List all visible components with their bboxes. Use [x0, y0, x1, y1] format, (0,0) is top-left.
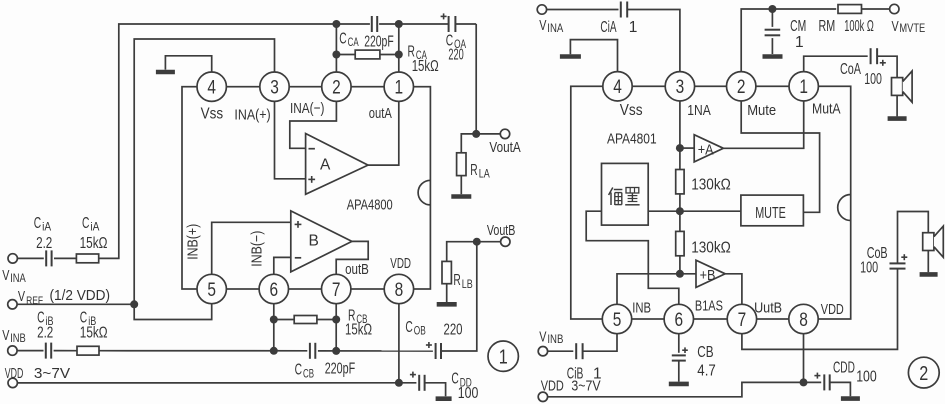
capacitor CiA 2.2 (input cap A)	[8, 215, 76, 267]
svg-text:V: V	[2, 267, 9, 284]
wire pin7 down to feedback node	[335, 303, 337, 351]
ground (pin4 stub right)	[560, 40, 618, 73]
capacitor COA 220 (output cap A)	[441, 13, 477, 63]
svg-text:OB: OB	[414, 323, 426, 337]
svg-text:VoutB: VoutB	[487, 223, 516, 239]
svg-text:Mute: Mute	[747, 102, 776, 119]
junction RCB right	[332, 316, 340, 324]
capacitor CDD 100 (supply decoupling, left)	[410, 371, 479, 403]
svg-text:15kΩ: 15kΩ	[80, 235, 108, 252]
amp +B	[680, 260, 725, 287]
svg-text:INB: INB	[632, 300, 651, 317]
svg-text:1NA: 1NA	[687, 102, 711, 119]
svg-text:B1AS: B1AS	[695, 298, 723, 315]
wire pin6 down to feedback node	[273, 303, 275, 351]
wire bias block to pin6 (B1AS)	[586, 211, 679, 305]
ground (RLB)	[437, 302, 457, 307]
wire pin1 drop from top rail	[398, 24, 400, 73]
svg-text:A: A	[320, 157, 331, 174]
pin 6	[259, 274, 288, 303]
svg-text:LB: LB	[462, 277, 473, 291]
junction VoutB node	[473, 238, 481, 246]
svg-text:V: V	[2, 327, 9, 344]
svg-text:CA: CA	[348, 35, 359, 49]
figure label 1	[488, 341, 518, 371]
svg-text:INA: INA	[547, 23, 563, 35]
svg-text:100: 100	[860, 260, 878, 277]
svg-text:B: B	[309, 233, 319, 250]
capacitor CoA 100 (output cap A right)	[840, 48, 886, 88]
label INB(-) rotated	[249, 231, 265, 267]
svg-text:220: 220	[444, 322, 463, 339]
junction RCB left	[270, 316, 278, 324]
resistor 130k (upper)	[676, 170, 731, 194]
pin 3 name 1NA	[687, 102, 711, 119]
svg-text:CM: CM	[790, 18, 806, 35]
svg-text:R: R	[470, 162, 477, 179]
pin 8 name VDD (U2)	[821, 301, 844, 318]
pin 2 (U2)	[727, 72, 756, 101]
svg-text:2: 2	[919, 363, 928, 385]
wire pin2 to MUTE block	[741, 100, 819, 212]
junction +A input	[676, 144, 684, 152]
resistor RLA (load A)	[457, 134, 490, 194]
svg-text:1: 1	[499, 346, 508, 368]
capacitor CiA 1 (right input cap A)	[600, 2, 637, 37]
wire CiB to pin5	[583, 333, 617, 352]
junction bias node	[676, 207, 684, 215]
junction rail/pin7	[332, 347, 340, 355]
svg-text:1: 1	[799, 77, 808, 98]
resistor RCA 15k (feedback A)	[336, 44, 438, 75]
wire top feedback rail from input resistor to pin2 node	[99, 24, 337, 258]
junction top rail / pin1	[395, 20, 403, 28]
svg-text:220: 220	[448, 46, 464, 63]
svg-text:VDD: VDD	[5, 366, 24, 382]
svg-text:INB(+): INB(+)	[186, 224, 202, 260]
wire INB(-) pin6 to op-amp B inverting input	[274, 257, 291, 275]
pin 3 name INA(+)	[234, 107, 270, 124]
svg-text:V: V	[539, 17, 546, 34]
pin 1	[384, 72, 413, 101]
svg-text:1: 1	[395, 78, 404, 99]
wire pin8 to VDD rail	[398, 303, 400, 383]
svg-text:INA(−): INA(−)	[290, 100, 324, 117]
label INB(+) rotated	[186, 224, 202, 260]
svg-text:R: R	[453, 272, 460, 289]
terminal VREF	[8, 288, 135, 309]
figure label 2	[908, 357, 939, 388]
pin 6 (U2)	[664, 304, 693, 333]
pin 8 name VDD	[390, 255, 411, 272]
block MUTE	[741, 195, 804, 226]
svg-text:2: 2	[332, 78, 341, 99]
wire CoB to speaker B	[898, 212, 929, 264]
svg-text:5: 5	[613, 310, 622, 331]
svg-text:130kΩ: 130kΩ	[691, 176, 731, 193]
pin 7 (U2)	[727, 304, 756, 333]
junction RCA right	[395, 51, 403, 59]
terminal VMVTE	[890, 4, 926, 35]
svg-text:Vss: Vss	[620, 102, 643, 119]
svg-text:1: 1	[629, 19, 638, 36]
wire VREF to pin5 (INB+)	[134, 303, 212, 320]
capacitor CoB 100 (output cap B)	[860, 245, 907, 277]
svg-text:100: 100	[458, 385, 479, 402]
resistor RLB (load B)	[442, 242, 477, 302]
svg-text:3~7V: 3~7V	[571, 379, 600, 395]
ground (speaker A)	[888, 116, 907, 121]
junction +B input	[676, 270, 684, 278]
capacitor CCB 220pF	[295, 343, 356, 381]
ground (speaker B)	[920, 272, 938, 277]
svg-text:+B: +B	[700, 268, 716, 284]
wire CCB to COB	[318, 350, 433, 352]
terminal VoutB	[477, 223, 516, 246]
pin 6 name B1AS	[695, 298, 723, 315]
svg-text:7: 7	[738, 310, 747, 331]
svg-text:APA4800: APA4800	[347, 197, 393, 214]
ground (RLA)	[451, 194, 471, 199]
pin 3 (U2)	[665, 72, 694, 101]
pin 8	[384, 274, 413, 303]
label APA4801	[607, 131, 657, 148]
svg-text:C: C	[405, 319, 412, 336]
wire pin5 to +B input	[617, 274, 680, 306]
ground (CDD right)	[841, 396, 860, 401]
svg-text:3: 3	[270, 78, 279, 99]
svg-text:V: V	[18, 288, 25, 305]
terminal VINB (right)	[538, 329, 573, 356]
svg-text:Vss: Vss	[201, 106, 224, 123]
svg-text:3: 3	[676, 77, 685, 98]
svg-text:V: V	[892, 18, 899, 35]
wire INA(+) pin3 to op-amp A non-inverting input	[275, 100, 306, 178]
resistor CiA 15k (input R, channel A)	[76, 215, 107, 263]
svg-text:2.2: 2.2	[37, 325, 53, 342]
svg-text:4.7: 4.7	[697, 362, 716, 379]
pin 5 name INB	[632, 300, 651, 317]
svg-text:220pF: 220pF	[325, 361, 356, 378]
label bias 偏置	[609, 188, 640, 206]
pin 2	[322, 72, 351, 101]
svg-text:iA: iA	[90, 219, 99, 233]
svg-text:REF: REF	[26, 295, 43, 307]
pin 2 name Mute	[747, 102, 776, 119]
wire VREF to pin3 (INA+)	[134, 39, 274, 304]
terminal VoutA	[476, 129, 521, 156]
wire pin1 to CoA	[804, 56, 868, 72]
wire speaker A to ground	[896, 95, 898, 116]
svg-text:8: 8	[799, 310, 808, 331]
svg-text:(1/2 VDD): (1/2 VDD)	[50, 288, 111, 304]
ground (pin4 stub)	[156, 56, 212, 73]
svg-text:C: C	[34, 215, 41, 232]
svg-text:100k Ω: 100k Ω	[844, 18, 874, 35]
svg-text:C: C	[339, 30, 346, 47]
junction RCA left	[332, 51, 340, 59]
terminal VINA (right)	[537, 5, 618, 35]
svg-text:outA: outA	[369, 105, 392, 122]
pin 1 (U2)	[789, 72, 818, 101]
wire op-amp B output to pin7	[336, 241, 368, 275]
svg-text:INB: INB	[547, 334, 563, 346]
svg-text:APA4801: APA4801	[607, 131, 657, 148]
svg-text:INA: INA	[10, 273, 26, 285]
svg-text:MutA: MutA	[812, 101, 841, 118]
svg-text:15kΩ: 15kΩ	[80, 325, 108, 342]
svg-text:5: 5	[207, 280, 216, 301]
amp +A	[680, 135, 724, 162]
wire INB(+) pin5 to op-amp B non-inverting input	[212, 222, 291, 275]
junction VDD/pin8 (right)	[800, 378, 808, 386]
junction rail/pin6	[270, 347, 278, 355]
resistor RCB 15k (feedback B)	[274, 308, 372, 339]
capacitor COB 220 (output cap B)	[405, 319, 462, 359]
pin 5	[197, 274, 226, 303]
junction VoutA node	[472, 130, 480, 138]
svg-text:CB: CB	[697, 344, 713, 361]
svg-text:6: 6	[270, 280, 279, 301]
IC U2 APA4801 package outline	[571, 86, 851, 319]
svg-text:MUTE: MUTE	[755, 205, 786, 222]
svg-text:VDD: VDD	[821, 301, 844, 318]
svg-text:VoutA: VoutA	[489, 140, 521, 156]
svg-text:15kΩ: 15kΩ	[412, 58, 439, 75]
pin 5 (U2)	[602, 304, 631, 333]
pin 4 name Vss	[201, 106, 224, 123]
svg-text:C: C	[295, 362, 302, 379]
junction VDD/pin8	[395, 379, 403, 387]
pin 2 name INA(-)	[290, 100, 324, 117]
svg-text:VDD: VDD	[541, 379, 564, 395]
svg-text:100: 100	[856, 368, 877, 385]
wire VDD rail (right)	[538, 379, 821, 402]
wire bias node to MUTE block	[648, 210, 741, 212]
wire +A output to pin1	[723, 100, 803, 148]
op-amp A	[306, 134, 368, 195]
svg-text:MVTE: MVTE	[899, 23, 925, 35]
wire INA(-) pin2 to op-amp A inverting input	[290, 100, 337, 148]
wire pin3 internal chain	[679, 100, 681, 170]
svg-text:C: C	[82, 215, 89, 232]
svg-text:100: 100	[864, 71, 882, 88]
svg-text:8: 8	[395, 280, 404, 301]
junction VREF node	[130, 300, 138, 308]
capacitor CiB 2.2 (input cap B)	[8, 309, 77, 358]
terminal VINA label	[2, 267, 26, 285]
svg-text:iA: iA	[42, 219, 51, 233]
pin 1 name MutA	[812, 101, 841, 118]
svg-text:4: 4	[207, 78, 216, 99]
svg-text:RM: RM	[819, 18, 836, 35]
svg-text:LA: LA	[479, 167, 490, 181]
svg-text:130kΩ: 130kΩ	[691, 240, 731, 257]
speaker B	[923, 226, 944, 257]
wire VoutA branch	[475, 24, 477, 134]
capacitor CiB 1 (right input cap B)	[567, 343, 602, 382]
svg-text:2: 2	[737, 77, 746, 98]
pin 7 name UutB	[754, 300, 782, 317]
pin 4 name Vss (U2)	[620, 102, 643, 119]
svg-text:2.2: 2.2	[36, 235, 52, 252]
terminal VINB label	[2, 327, 26, 345]
pin 7 name outB	[345, 261, 369, 278]
svg-text:7: 7	[332, 280, 341, 301]
pin 4 (U2)	[603, 72, 632, 101]
wire pin2 drop from top rail	[335, 24, 337, 73]
svg-text:+A: +A	[698, 142, 714, 158]
pin 4	[197, 72, 226, 101]
speaker A	[892, 71, 913, 102]
resistor RM 100k (mute R)	[819, 5, 890, 35]
op-amp B	[291, 211, 352, 272]
svg-text:VDD: VDD	[390, 255, 411, 272]
wire outA rail to COA	[399, 23, 448, 25]
wire COB to VoutB	[441, 242, 477, 351]
capacitor CDD 100 (supply decoupling, right)	[814, 359, 877, 396]
svg-text:UutB: UutB	[754, 300, 782, 317]
wire VDD rail	[5, 366, 417, 388]
ground (CB)	[669, 382, 689, 387]
wire CoA to speaker A	[877, 56, 897, 77]
junction CM node	[768, 5, 776, 13]
pin 1 name outA	[369, 105, 392, 122]
wire op-amp A output to pin1	[368, 100, 399, 165]
svg-text:CiA: CiA	[600, 19, 617, 36]
block bias (offset) box	[602, 163, 649, 225]
svg-text:15kΩ: 15kΩ	[345, 321, 372, 338]
wire VINB rail to CCB	[99, 350, 307, 352]
wire +B output to pin7	[725, 274, 742, 306]
wire pin8 to VDD rail (right)	[803, 333, 805, 383]
ground (CDD left)	[436, 396, 452, 401]
svg-text:220pF: 220pF	[364, 33, 394, 50]
IC U1 APA4800 package outline	[182, 87, 430, 289]
ground (CM)	[763, 54, 783, 59]
capacitor CB 4.7 (bias cap)	[672, 333, 716, 382]
svg-text:outB: outB	[345, 261, 369, 278]
resistor 130k (lower)	[676, 231, 731, 256]
pin 7	[322, 274, 351, 303]
pin 8 (U2)	[789, 304, 818, 333]
svg-text:CDD: CDD	[833, 359, 855, 376]
wire pin2 to mute rail	[741, 9, 836, 73]
svg-text:CB: CB	[303, 366, 314, 380]
label APA4800	[347, 197, 393, 214]
junction top rail / pin2	[332, 20, 340, 28]
capacitor CM 1 (mute cap)	[765, 9, 807, 54]
svg-text:4: 4	[613, 77, 622, 98]
svg-text:V: V	[539, 329, 546, 346]
pin 3	[260, 72, 289, 101]
svg-text:CoA: CoA	[840, 61, 861, 78]
wire speaker B to ground	[927, 251, 929, 273]
wire CiA to pin3	[627, 10, 680, 73]
svg-text:3~7V: 3~7V	[34, 366, 70, 382]
capacitor CCA 220pF (in top rail)	[336, 16, 398, 50]
svg-text:INB: INB	[10, 333, 26, 345]
svg-text:INA(+): INA(+)	[234, 107, 270, 124]
wire between 130k resistors	[679, 194, 681, 232]
svg-text:6: 6	[675, 310, 684, 331]
wire lower 130k to +B node	[679, 256, 681, 274]
wire pin7 to CoB	[742, 269, 898, 350]
resistor CiB 15k (input R, channel B)	[77, 309, 108, 355]
svg-text:1: 1	[795, 34, 804, 51]
svg-text:INB(−): INB(−)	[249, 231, 265, 267]
